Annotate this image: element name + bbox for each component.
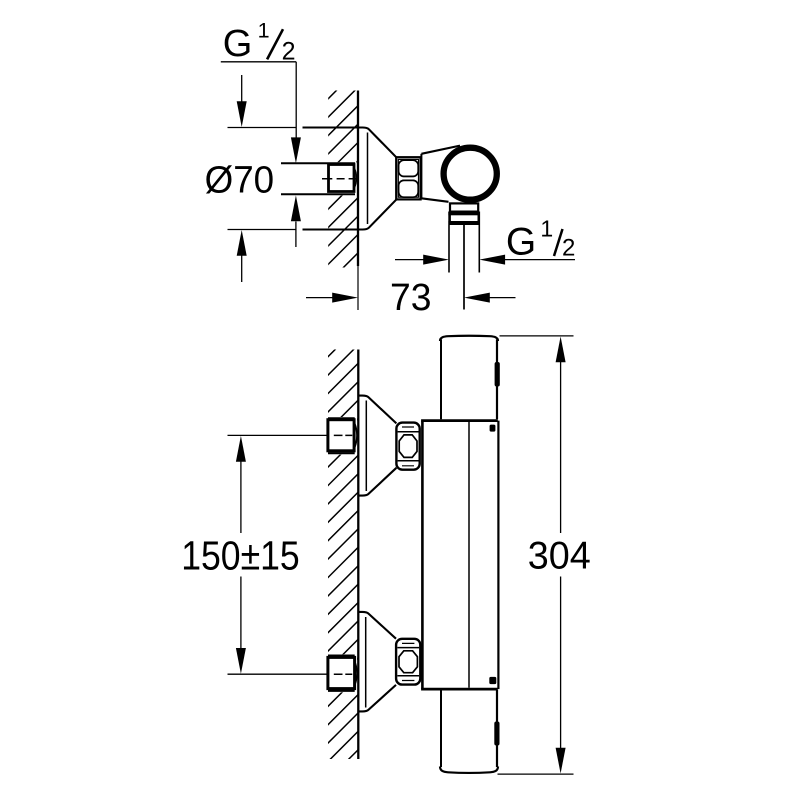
lower centerline: extension + dash-dot: [228, 673, 328, 675]
dimension O70: extension lines: [228, 128, 297, 230]
svg-text:1: 1: [540, 216, 553, 242]
top cylinder side clip bump: [495, 362, 500, 387]
pipe end bulge arc: [354, 168, 356, 189]
centerline of supply (dash-dot): [322, 178, 358, 180]
wall hatching (front view): [325, 326, 358, 800]
lower square fitting: [328, 657, 355, 688]
hose connector nut (thick bands): [448, 212, 480, 216]
upper square fitting flank lines: [328, 418, 355, 453]
svg-text:G: G: [223, 23, 253, 65]
svg-text:304: 304: [528, 535, 591, 578]
lower rosette face line: [365, 617, 367, 708]
escutcheon rosette top edge (side view): [303, 128, 397, 158]
hose centerline: [463, 225, 465, 310]
hose connector nipple: [450, 203, 478, 211]
dimension 73: left arrow at wall: [306, 297, 334, 299]
wall line (top view): [357, 91, 359, 267]
svg-text:Ø70: Ø70: [205, 159, 275, 201]
body inner line: [468, 422, 470, 688]
dimension O70 down arrow: [241, 75, 243, 103]
svg-text:73: 73: [390, 277, 432, 319]
upper square fitting: [328, 420, 354, 451]
upper centerline: extension + dash-dot: [228, 434, 328, 436]
bottom cylinder (thermostat handle): [440, 690, 442, 767]
lower S-union: rosette bottom edge: [358, 685, 396, 712]
white underlay at supply fitting: [327, 162, 357, 195]
wall line (front view): [357, 350, 359, 760]
lower pipe end bulge: [355, 661, 357, 685]
dimension 304: extension lines: [500, 335, 574, 337]
svg-text:2: 2: [562, 235, 575, 262]
label G 1/2 (top left): [223, 19, 296, 66]
svg-text:2: 2: [282, 37, 296, 65]
supply square fitting: [329, 165, 355, 192]
upper union nut (front view): [396, 423, 419, 470]
svg-text:150±15: 150±15: [181, 533, 300, 579]
dimension G1/2 up arrow: [295, 222, 297, 248]
dimension 73: right arrow at hose centerline: [489, 297, 516, 299]
supply pipe thread lines: [281, 163, 355, 194]
body bottom-right mark: [489, 677, 496, 684]
union nut (side view): [396, 157, 420, 199]
dimension G1/2 leader vertical with down arrow: [295, 62, 297, 139]
white underlay at upper square fitting: [326, 417, 357, 455]
hose lines: [449, 225, 479, 273]
upper pipe end bulge: [355, 423, 357, 447]
knob circle (thermostat handle): [444, 148, 497, 200]
escutcheon rosette bottom edge (side view): [303, 200, 397, 230]
upper rosette face line: [365, 401, 367, 492]
dimension O70 up arrow: [241, 256, 243, 283]
bottom cylinder side clip bump: [494, 722, 499, 746]
lower union nut (front view): [396, 639, 420, 685]
dimension 304: line and arrows: [560, 361, 562, 749]
top cylinder (shower outlet pipe): [440, 340, 442, 420]
upper S-union: rosette top edge: [358, 396, 396, 424]
wall extension line down to 73 dimension: [357, 266, 359, 310]
lower S-union: rosette top edge: [358, 612, 396, 639]
upper S-union: rosette bottom edge: [358, 468, 396, 496]
body top-right mark: [490, 425, 496, 432]
wall hatching (top view): [325, 69, 358, 304]
white underlay at lower square fitting: [326, 654, 357, 692]
dimension G1/2 (hose): left arrow: [395, 259, 425, 261]
valve body (trapezoid to knob): [420, 154, 422, 199]
mixer body outline: [421, 421, 424, 689]
dimension 150+-15: line segments and arrows: [240, 461, 242, 650]
dimension G1/2 (hose): right arrow: [504, 259, 575, 261]
svg-text:1: 1: [258, 19, 270, 43]
svg-text:G: G: [506, 221, 536, 264]
lower square fitting flank lines: [328, 656, 355, 691]
escutcheon face line: [367, 133, 369, 225]
label G 1/2 (hose): [506, 216, 575, 264]
dimension G1/2 (supply): label underline: [221, 61, 296, 63]
